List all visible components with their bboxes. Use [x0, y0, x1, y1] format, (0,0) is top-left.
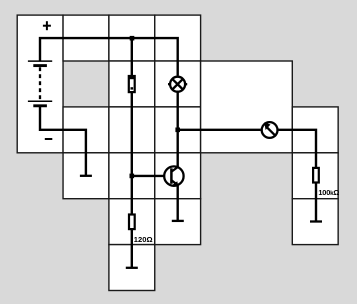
svg-text:100kΩ: 100kΩ [318, 188, 339, 197]
svg-text:120Ω: 120Ω [134, 235, 153, 244]
